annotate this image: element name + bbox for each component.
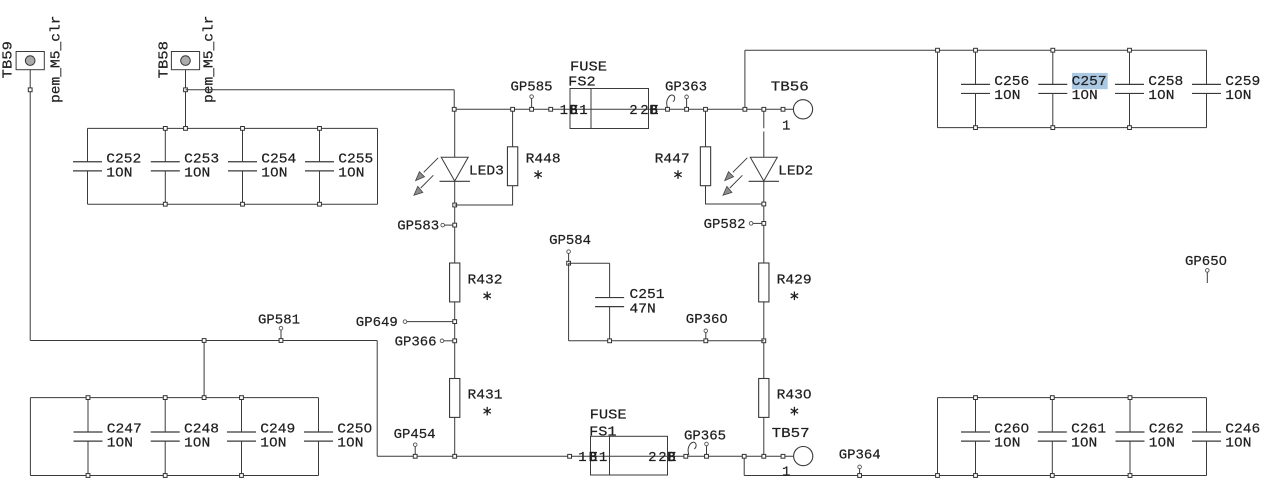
LED LED3 [414,157,470,195]
capacitor C250 10N [304,398,372,476]
svg-text:GP364: GP364 [839,448,881,464]
label FS2 [568,75,596,91]
junction C260 bottom [974,474,978,478]
svg-text:8: 8 [650,103,658,119]
svg-text:pem_M5_clr: pem_M5_clr [49,16,65,104]
junction C256 top [974,48,978,52]
resistor R429 [759,263,769,302]
wire C251 left [568,263,570,341]
junction C247 top [86,396,90,400]
label LED2 [778,164,813,180]
svg-text:GP366: GP366 [395,335,437,351]
pin GP364 [858,465,862,469]
pin GP582 [749,222,753,226]
wire rail elbow down [453,90,455,110]
svg-text:1: 1 [578,450,586,466]
resistor R432 [450,263,460,302]
wire LED3 anode lead [454,109,456,157]
junction R429/C251 [762,339,766,343]
junction GP581 [279,339,283,343]
svg-text:2: 2 [658,450,666,466]
connector TB59 [1,16,65,104]
junction GP454 [413,454,417,458]
wire C247 bank left edge [29,398,31,476]
wire GP581 stub [280,330,282,338]
value R429 * [791,292,798,301]
svg-text:GP584: GP584 [549,233,591,249]
capacitor C249 10N [227,398,295,476]
pin2 hook FS1 [688,442,696,455]
terminal TB57 [794,447,813,466]
junction C247 bottom [86,474,90,478]
svg-text:TB58: TB58 [157,41,173,79]
junction C262 bottom [1128,474,1132,478]
wire C251 top [569,262,610,264]
label R430 [777,388,812,404]
junction GP585 [530,107,534,111]
LED LED2 [723,157,779,195]
junction GP583 [453,223,457,227]
junction C257 top [1051,48,1055,52]
svg-text:GP583: GP583 [397,218,439,234]
wire GP363 stub [686,99,688,107]
capacitor C255 10N [305,128,373,204]
wire LED2 anode lead upper [763,109,765,128]
wire LED2 cathode to R429 [763,181,765,263]
junction C255 bottom [318,202,322,206]
svg-text:TB59: TB59 [1,41,17,79]
label TB56 [771,79,809,95]
value R447 * [674,170,681,179]
value R430 * [791,407,798,416]
junction FS1 pin1 [568,454,572,458]
svg-text:1: 1 [782,118,790,134]
value R431 * [484,407,491,416]
pin number FS1 1 [578,450,586,466]
junction GP366 [453,339,457,343]
svg-text:FS2: FS2 [568,75,596,91]
capacitor C261 10N [1038,398,1106,476]
capacitor C258 10N [1115,50,1183,127]
capacitor C252 10N [73,128,141,204]
capacitor C262 10N [1116,398,1184,476]
capacitor C251 47N [595,263,664,341]
svg-text:GP360: GP360 [686,312,728,328]
wire bottom-right extension [744,475,937,477]
junction GP649 [453,320,457,324]
pin name FS1 B1 [589,450,598,466]
junction GP584 [567,261,571,265]
junction TB58 bank top [184,127,188,131]
svg-text:8: 8 [668,450,676,466]
capacitor C260 10N [961,398,1029,476]
svg-text:TB57: TB57 [772,426,810,442]
junction GP360 [704,339,708,343]
wire GP582 stub [753,222,762,224]
label LED3 [469,164,504,180]
wire C256 bank top [938,49,1207,51]
junction top-right rail [936,48,940,52]
junction C258 top [1128,48,1132,52]
label GP649 [356,315,398,331]
label FUSE [570,59,607,75]
resistor R447 [700,147,710,186]
junction C251 bottom [608,339,612,343]
label GP454 [394,427,436,443]
pin number FS2 2 [640,103,648,119]
label FS1 [589,425,617,441]
svg-text:2: 2 [629,103,637,119]
label R429 [777,272,812,288]
pin GP583 [441,223,445,227]
wire branch to GP364 [743,456,745,475]
junction FS2 pin2 [666,107,670,111]
pin GP584 [567,250,571,254]
wire GP366 stub [444,340,453,342]
wire C252 bank bottom [88,203,378,205]
junction top-right riser [743,107,747,111]
wire C260 bank left edge [937,398,939,476]
capacitor C259 10N [1192,50,1260,127]
junction LED2/R447 [762,202,766,206]
wire C260 bank bottom [938,475,1207,477]
wire vertical to bottom rail [376,341,378,457]
svg-text:R447: R447 [655,151,690,167]
svg-text:GP454: GP454 [394,427,436,443]
junction TB59 [28,88,32,92]
label GP650 [1185,254,1227,270]
wire C252 bank top [88,127,378,129]
junction wire/bank drop [202,339,206,343]
wire TB58 drop [185,70,187,129]
svg-text:GP365: GP365 [684,428,726,444]
wire TB59 vertical [29,70,31,341]
label GP585 [511,79,553,95]
svg-text:FS1: FS1 [589,425,617,441]
wire LED3 cathode to R432 [454,181,456,263]
svg-text:LED2: LED2 [778,164,813,180]
junction R431 bottom [453,454,457,458]
svg-text:1: 1 [579,103,587,119]
label GP582 [704,217,746,233]
label GP365 [684,428,726,444]
junction C261 top [1050,396,1054,400]
junction C255 top [318,127,322,131]
wire C256 bank left edge [937,50,939,127]
fuse FS1 [591,436,668,475]
wire GP584 stub [568,253,570,261]
svg-text:R432: R432 [468,272,503,288]
pin GP581 [279,326,283,330]
highlight C257 [1072,73,1108,89]
junction C257 bottom [1051,126,1055,130]
wire GP454 stub [414,447,416,455]
junction LED3/R448 [453,203,457,207]
wire C251 bottom [569,340,764,342]
label GP366 [395,335,437,351]
pin name FS2 B2 [649,103,658,119]
junction TB56 pin [781,107,785,111]
wire TB58 rail [186,89,455,91]
label GP583 [397,218,439,234]
label TB57 [772,426,810,442]
wire C247 bank bottom [30,475,318,477]
label GP364 [839,448,881,464]
svg-text:8: 8 [570,103,578,119]
pin GP360 [704,329,708,333]
junction R448 top [511,107,515,111]
junction bottom-right corner [936,474,940,478]
svg-text:FUSE: FUSE [590,408,627,424]
junction C262 top [1128,396,1132,400]
pin GP365 [705,442,709,446]
wire C252 bank right edge [377,128,379,204]
pin number FS1 2 inner [648,450,656,466]
label R432 [468,272,503,288]
junction GP365 [705,454,709,458]
label R448 [526,151,561,167]
capacitor C257 10N [1038,50,1106,127]
pin GP454 [413,443,417,447]
junction R430 bottom [762,454,766,458]
wire R432 to R431 [454,302,456,379]
label GP584 [549,233,591,249]
pin number TB57 1 [782,465,790,481]
value R432 * [484,292,491,301]
junction C253 top [163,127,167,131]
label GP360 [686,312,728,328]
terminal TB56 [793,100,812,119]
wire net pem_M5_clr horizontal [30,340,377,342]
svg-text:2: 2 [648,450,656,466]
wire GP360 stub [705,333,707,339]
wire drop to C247 bank [203,341,205,398]
junction C254 top [241,127,245,131]
svg-text:GP649: GP649 [356,315,398,331]
capacitor C256 10N [961,50,1029,127]
capacitor C253 10N [151,128,219,204]
junction LED2 top [762,107,766,111]
pin number FS2 1 inner [579,103,587,119]
resistor R430 [759,379,769,418]
wire GP585 stub [531,98,533,107]
junction GP363 [685,107,689,111]
svg-text:R448: R448 [526,151,561,167]
label FUSE FS1 [590,408,627,424]
junction C260 top [974,396,978,400]
wire C247 bank top [30,397,318,399]
junction bank drop [202,396,206,400]
pin number FS1 1 inner [599,450,607,466]
junction FS2 pin1 [549,107,553,111]
wire GP650 stub [1206,272,1208,283]
capacitor C247 10N [74,398,142,476]
junction bottom branch [742,454,746,458]
wire R448 bottom elbow [455,186,513,205]
wire LED2 anode lead lower [763,132,765,158]
svg-text:R431: R431 [468,388,503,404]
svg-text:8: 8 [589,450,597,466]
junction FS1 pin2 [684,454,688,458]
wire riser to top-right rail [744,50,746,109]
junction R447 top [704,107,708,111]
wire GP364 stub [859,469,861,474]
svg-text:2: 2 [640,103,648,119]
junction C256 bottom [974,126,978,130]
wire GP365 stub [706,446,708,454]
junction rail elbow [452,107,456,111]
junction C261 bottom [1050,474,1054,478]
wire R448 top lead [512,109,514,147]
wire top rail [454,108,793,110]
svg-text:R429: R429 [777,272,812,288]
junction GP582 [762,222,766,226]
svg-text:1: 1 [782,465,790,481]
pin number FS1 2 [658,450,666,466]
pin GP363 [685,95,689,99]
pin name FS1 B2 [667,450,676,466]
pin2 hook FS2 [667,95,675,108]
wire R430 bottom lead [763,417,765,456]
svg-text:1: 1 [560,103,568,119]
junction C258 bottom [1128,126,1132,130]
pin name FS2 B1 [569,103,578,119]
junction TB58 [184,88,188,92]
wire top-right rail [745,49,938,51]
pin number FS2 1 [560,103,568,119]
svg-text:LED3: LED3 [469,164,504,180]
capacitor C246 10N [1192,398,1260,476]
wire R447 bottom elbow [706,186,764,204]
junction C248 bottom [163,474,167,478]
junction C253 bottom [163,202,167,206]
svg-text:GP582: GP582 [704,217,746,233]
capacitor C254 10N [228,128,296,204]
svg-text:GP581: GP581 [258,312,300,328]
label GP363 [665,79,707,95]
wire bottom rail [377,455,793,457]
wire C260 bank top [938,397,1207,399]
junction GP364 [858,474,862,478]
label R431 [468,388,503,404]
junction C248 top [163,396,167,400]
junction TB57 pin [781,454,785,458]
resistor R448 [507,147,517,186]
svg-text:TB56: TB56 [771,79,809,95]
svg-text:GP585: GP585 [511,79,553,95]
svg-text:47N: 47N [630,301,656,317]
label R447 [655,151,690,167]
wire R447 top lead [705,109,707,147]
pin GP650 [1206,269,1210,273]
connector TB58 [157,16,218,104]
capacitor C248 10N [151,398,219,476]
svg-text:1: 1 [599,450,607,466]
wire C256 bank bottom [938,127,1207,129]
svg-text:FUSE: FUSE [570,59,607,75]
resistor R431 [450,379,460,418]
fuse FS2 [570,89,649,129]
svg-text:GP363: GP363 [665,79,707,95]
wire R431 bottom lead [454,417,456,456]
label GP581 [258,312,300,328]
pin number TB56 1 [782,118,790,134]
pin GP649 [403,320,407,324]
svg-text:GP650: GP650 [1185,254,1227,270]
pin GP585 [530,95,534,99]
junction C249 bottom [240,474,244,478]
wire GP583 stub [445,224,453,226]
value R448 * [534,170,541,179]
wire R429 to R430 [763,302,765,379]
junction C254 bottom [241,202,245,206]
pin GP366 [440,339,444,343]
junction C249 top [240,396,244,400]
wire GP649 stub [407,321,455,323]
pin number FS2 2 inner [629,103,637,119]
